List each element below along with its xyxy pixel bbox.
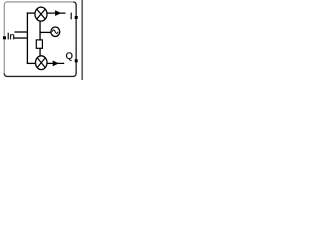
wire: LO vertical upper (mixer M1 to junction) bbox=[39, 21, 41, 33]
outer block box fill bbox=[4, 2, 76, 76]
wire: upper stub to splitter bbox=[15, 31, 28, 33]
port square In bbox=[3, 36, 6, 39]
port square I bbox=[75, 16, 78, 19]
port square Q bbox=[75, 59, 78, 62]
label In bbox=[8, 33, 14, 39]
right separator line bbox=[81, 0, 83, 80]
arrowhead Q path bbox=[53, 61, 59, 66]
wire: input horizontal from In label to splitter bbox=[14, 37, 28, 39]
label I bbox=[43, 13, 99, 19]
wire: Q output from mixer M2 bbox=[47, 62, 64, 64]
wire: bottom branch to mixer M2 bbox=[27, 62, 36, 64]
wire: splitter vertical bbox=[26, 12, 28, 64]
outer block box dark bottom-right border bbox=[4, 2, 76, 76]
background bbox=[0, 0, 84, 80]
wire: top branch to mixer M1 bbox=[27, 12, 35, 14]
oscillator sine bbox=[52, 30, 58, 34]
mixer M2 circle bbox=[36, 56, 48, 70]
wire: I output from mixer M1 bbox=[47, 12, 65, 14]
mixer M1 circle bbox=[35, 7, 47, 21]
mixer M2 X bbox=[37, 58, 45, 68]
arrowhead I path bbox=[55, 11, 61, 16]
phase shifter box bbox=[36, 40, 42, 48]
label Q bbox=[66, 52, 72, 60]
wire: LO horizontal to oscillator bbox=[40, 31, 51, 33]
wire: phase shifter to mixer M2 bbox=[39, 48, 41, 56]
outer block box light top-left border bbox=[4, 2, 73, 73]
oscillator circle bbox=[51, 27, 60, 37]
wire: LO vertical to phase shifter bbox=[39, 32, 41, 40]
mixer M1 X bbox=[37, 9, 46, 19]
